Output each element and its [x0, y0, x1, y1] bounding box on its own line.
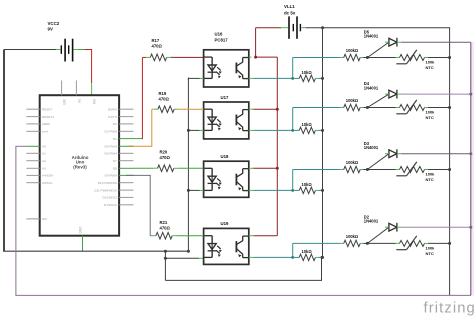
- wire VLL1 negative lead: [256, 27, 288, 29]
- diode D4 1N4001: [385, 90, 402, 99]
- resistor 100k ch-U19: [344, 240, 368, 246]
- wire U16 emitter: [249, 77, 293, 79]
- thermistor NTC 100k ch-U19: [367, 236, 449, 250]
- node emitter junction U18: [291, 189, 294, 192]
- resistor 100k ch-U16: [344, 54, 368, 60]
- pin A2: [26, 159, 46, 163]
- pin A4/SDA: [26, 174, 54, 178]
- node NTC to bus U17: [448, 106, 451, 109]
- pale margin strip: [472, 42, 474, 296]
- svg-text:A5/SCL: A5/SCL: [42, 181, 53, 185]
- wire ground bottom run: [165, 279, 322, 281]
- svg-text:U17: U17: [221, 95, 229, 100]
- svg-text:R19: R19: [159, 91, 167, 96]
- svg-text:RESET2: RESET2: [42, 115, 54, 119]
- wire U17 emitter: [249, 129, 293, 131]
- wire U18 collector stub: [249, 167, 277, 169]
- pin A5/SCL: [26, 181, 53, 185]
- pin A0: [26, 145, 46, 149]
- label D3 1N4001: [364, 141, 379, 150]
- svg-text:D1/TX: D1/TX: [108, 115, 117, 119]
- phototransistor of U16: [236, 58, 248, 79]
- resistor 10k ch-U17: [293, 127, 323, 133]
- label D5 1N4001: [364, 29, 379, 38]
- svg-text:10kΩ: 10kΩ: [302, 182, 313, 187]
- svg-text:470Ω: 470Ω: [160, 226, 171, 231]
- wire purple right bus: [470, 42, 472, 295]
- wire emitter jog up U18: [292, 170, 294, 191]
- phototransistor of U17: [236, 110, 248, 131]
- node 10k to bus U16: [321, 77, 324, 80]
- pin D2: [113, 122, 134, 126]
- node 10k bus bottom: [321, 256, 324, 259]
- svg-text:RESET: RESET: [42, 107, 52, 111]
- pin AREF: [26, 122, 50, 126]
- node U18 collector branch: [276, 167, 279, 170]
- svg-text:A3: A3: [42, 167, 46, 171]
- node ground jog: [164, 257, 167, 260]
- pin D6 PWM: [105, 152, 134, 156]
- pin D10 PWM/SS: [98, 181, 134, 185]
- node VLL1+ / 10k bus: [321, 26, 324, 29]
- label 100k NTC ch-U19: [426, 246, 436, 256]
- wire D5 to R19: [128, 109, 158, 146]
- wire D5 output: [402, 41, 471, 43]
- label 10k ch-U17: [302, 122, 313, 127]
- wire U19 emitter: [249, 256, 293, 258]
- resistor 10k ch-U16: [293, 75, 323, 81]
- wire purple bottom rail: [15, 294, 471, 296]
- resistor R20 470: [158, 165, 174, 172]
- svg-text:D7: D7: [113, 159, 117, 163]
- wire U19 collector stub: [249, 235, 277, 237]
- svg-text:D8: D8: [113, 167, 117, 171]
- svg-text:fritzing: fritzing: [424, 300, 474, 316]
- pin D13/SCK: [104, 203, 134, 207]
- wire opto cathode bus: [187, 78, 189, 252]
- svg-text:10kΩ: 10kΩ: [302, 122, 313, 127]
- optocoupler U19 body: [204, 228, 249, 264]
- wire U16 cathode stub: [188, 78, 203, 80]
- node 100k junction U18: [366, 168, 369, 171]
- node cathode bus U18: [187, 189, 190, 192]
- svg-text:100kΩ: 100kΩ: [346, 98, 359, 103]
- pin D0/RX: [108, 107, 134, 111]
- svg-text:3V3: 3V3: [62, 99, 66, 105]
- svg-text:GND: GND: [78, 226, 82, 234]
- pin D1/TX: [108, 115, 133, 119]
- svg-text:1N4001: 1N4001: [364, 145, 379, 150]
- svg-text:R21: R21: [160, 220, 168, 225]
- pin 3V3: [62, 81, 66, 105]
- wire VCC2 positive to VIN: [73, 49, 92, 95]
- svg-text:D3 PWM: D3 PWM: [105, 130, 118, 134]
- node emitter junction U17: [291, 129, 294, 132]
- svg-text:NTC: NTC: [426, 251, 434, 256]
- wire emitter jog up U19: [292, 243, 294, 257]
- node 10k to bus U17: [321, 129, 324, 132]
- resistor R21 470: [156, 232, 172, 239]
- node 100k junction U16: [366, 56, 369, 59]
- node 100k junction U19: [366, 242, 369, 245]
- svg-text:100kΩ: 100kΩ: [346, 234, 359, 239]
- node NTC to bus U18: [448, 168, 451, 171]
- label R17 470: [152, 38, 163, 49]
- pin D3 PWM: [105, 130, 134, 134]
- wire U16 collector stub: [249, 56, 252, 58]
- LED of U19: [204, 236, 222, 258]
- optocoupler U17 body: [204, 102, 249, 139]
- node D4 on purple bus: [469, 93, 472, 96]
- wire to 100k U19: [293, 242, 344, 244]
- svg-text:dc 5v: dc 5v: [284, 11, 296, 16]
- wire junction to diode D3: [367, 154, 389, 170]
- label R21 470: [160, 220, 171, 231]
- svg-text:A1: A1: [42, 152, 46, 156]
- wire VLL1 positive rail to right: [301, 27, 450, 29]
- thermistor NTC 100k ch-U16: [367, 50, 449, 64]
- pin D5 PWM: [105, 145, 134, 149]
- node U16 collector: [254, 56, 257, 59]
- svg-text:U19: U19: [221, 221, 229, 226]
- node U17 collector branch: [276, 108, 279, 111]
- node cathode bus ground: [187, 250, 190, 253]
- wire R19 to U17: [174, 108, 203, 110]
- node D3 on purple bus: [469, 152, 472, 155]
- svg-text:A0: A0: [42, 145, 46, 149]
- svg-text:470Ω: 470Ω: [160, 155, 171, 160]
- svg-text:D2: D2: [113, 122, 117, 126]
- wire to 100k U16: [293, 57, 344, 59]
- node 100k junction U17: [366, 106, 369, 109]
- label 100k NTC ch-U17: [426, 110, 436, 120]
- resistor 10k ch-U19: [293, 254, 323, 260]
- svg-text:NTC: NTC: [426, 115, 434, 120]
- wire D8 to R20: [134, 167, 158, 169]
- label 10k ch-U16: [302, 70, 313, 75]
- thermistor NTC 100k ch-U18: [367, 162, 449, 176]
- svg-text:D11 PWM/MOSI: D11 PWM/MOSI: [94, 188, 117, 192]
- wire VLL1- down: [255, 28, 257, 58]
- pin D11 PWM/MOSI: [94, 188, 133, 192]
- svg-text:A2: A2: [42, 159, 46, 163]
- svg-text:470Ω: 470Ω: [159, 97, 170, 102]
- svg-text:R20: R20: [160, 149, 168, 154]
- label VCC2 9V: [48, 21, 60, 31]
- label 100k ch-U17: [346, 98, 359, 103]
- pin D9 PWM: [105, 174, 134, 178]
- label 10k ch-U18: [302, 182, 313, 187]
- svg-text:D13/SCK: D13/SCK: [104, 203, 118, 207]
- wire ground rail: [3, 250, 188, 252]
- node 10k to bus U19: [321, 256, 324, 259]
- node emitter junction U16: [291, 77, 294, 80]
- label U17: [221, 95, 229, 100]
- pin A3: [26, 167, 46, 171]
- wire D9 to R21: [126, 175, 156, 235]
- node cathode bus U17: [187, 129, 190, 132]
- svg-text:A4/SDA: A4/SDA: [42, 174, 54, 178]
- pin RESET2: [26, 115, 54, 119]
- svg-text:9V: 9V: [48, 26, 53, 31]
- svg-text:U16: U16: [215, 31, 223, 36]
- wire U18 emitter: [249, 189, 293, 191]
- wire R17 to U16: [167, 56, 204, 58]
- phototransistor of U19: [236, 236, 248, 258]
- thermistor NTC 100k ch-U17: [367, 100, 449, 114]
- pin D7: [113, 159, 134, 163]
- svg-text:AREF: AREF: [42, 122, 50, 126]
- svg-text:10kΩ: 10kΩ: [302, 249, 313, 254]
- wire D4 output: [402, 93, 471, 95]
- svg-text:D0/RX: D0/RX: [108, 107, 117, 111]
- svg-text:D6 PWM: D6 PWM: [105, 152, 118, 156]
- label D2 1N4001: [364, 214, 379, 223]
- node emitter junction U19: [291, 256, 294, 259]
- resistor 100k ch-U17: [344, 104, 368, 110]
- resistor 10k ch-U18: [293, 187, 323, 193]
- wire ground jog down: [164, 251, 166, 280]
- wire to 100k U17: [293, 107, 344, 109]
- pin VIN: [92, 99, 96, 105]
- svg-text:VLL1: VLL1: [284, 4, 295, 9]
- svg-text:NTC: NTC: [426, 65, 434, 70]
- wire R21 to U19: [172, 235, 203, 237]
- svg-text:1N4001: 1N4001: [364, 86, 379, 91]
- label D4 1N4001: [364, 81, 379, 90]
- svg-text:ioref: ioref: [42, 130, 48, 134]
- pin N/C: [26, 217, 48, 221]
- label 100k NTC ch-U18: [426, 172, 436, 182]
- wire U18 cathode stub: [188, 189, 203, 191]
- diode D3 1N4001: [385, 149, 402, 158]
- battery VLL1: [288, 16, 301, 38]
- wire D3 output: [402, 153, 471, 155]
- wire NTC bus vertical: [449, 28, 451, 296]
- wire emitter jog up U16: [292, 58, 294, 79]
- LED of U18: [204, 168, 222, 190]
- fritzing watermark: [424, 300, 474, 316]
- svg-text:N/C: N/C: [42, 217, 48, 221]
- wire D2 output: [402, 226, 471, 228]
- diode D5 1N4001: [385, 38, 402, 47]
- svg-text:D9 PWM: D9 PWM: [105, 174, 118, 178]
- node 10k to bus U18: [321, 189, 324, 192]
- svg-text:VIN: VIN: [92, 99, 96, 105]
- pin GND wire to ground rail: [78, 226, 82, 251]
- wire D4 to R17: [134, 57, 151, 139]
- svg-text:470Ω: 470Ω: [152, 43, 163, 48]
- pin D4: [113, 137, 134, 141]
- optocoupler U18 body: [204, 161, 249, 197]
- phototransistor of U18: [236, 169, 248, 191]
- svg-text:U18: U18: [221, 154, 229, 159]
- wire ground rise to 10k bus: [321, 257, 323, 280]
- wire VCC2 negative lead to left border: [4, 49, 60, 51]
- svg-text:(Rev3): (Rev3): [73, 164, 87, 169]
- svg-text:100kΩ: 100kΩ: [346, 160, 359, 165]
- svg-text:D4: D4: [113, 137, 117, 141]
- wire emitter jog up U17: [292, 108, 294, 131]
- wire U17 cathode stub: [188, 129, 203, 131]
- node ground rail junction: [164, 250, 167, 253]
- pin ioref: [26, 130, 48, 134]
- resistor 100k ch-U18: [344, 166, 368, 172]
- svg-text:D10 PWM/SS: D10 PWM/SS: [98, 181, 117, 185]
- LED of U17: [204, 109, 222, 130]
- label Arduino Uno (Rev3): [72, 155, 89, 170]
- wire junction to diode D5: [367, 42, 389, 57]
- wire collector bus vertical: [276, 57, 278, 236]
- label 100k NTC ch-U16: [426, 60, 436, 70]
- wire U17 collector stub: [249, 108, 277, 110]
- diode D2 1N4001: [385, 223, 402, 232]
- pin 5V: [76, 81, 80, 104]
- wire to 100k U18: [293, 169, 344, 171]
- svg-text:PC817: PC817: [215, 38, 229, 43]
- optocoupler U16 body: [204, 50, 249, 87]
- node NTC to bus U19: [448, 242, 451, 245]
- node NTC to bus U16: [448, 56, 451, 59]
- wire left border vertical (VCC2- to GND rail): [3, 50, 5, 252]
- label U18: [221, 154, 229, 159]
- wire collector bus top: [256, 56, 278, 58]
- wire junction to diode D4: [367, 94, 389, 107]
- pin RESET: [26, 107, 52, 111]
- label 100k ch-U18: [346, 160, 359, 165]
- battery VCC2: [61, 39, 74, 62]
- LED of U16: [204, 57, 222, 78]
- label R20 470: [160, 149, 171, 160]
- svg-text:NTC: NTC: [426, 177, 434, 182]
- label 100k ch-U19: [346, 234, 359, 239]
- label VLL1 dc 5v: [284, 4, 296, 15]
- node D2 on purple bus: [469, 226, 472, 229]
- svg-text:R17: R17: [152, 38, 160, 43]
- label R19 470: [159, 91, 170, 102]
- wire ground to U19 cathode: [165, 257, 203, 259]
- svg-text:D12/MISO: D12/MISO: [102, 196, 117, 200]
- pin A1: [26, 152, 46, 156]
- pin D12/MISO: [102, 196, 133, 200]
- wire junction to diode D2: [367, 227, 389, 243]
- pin D8: [113, 167, 134, 171]
- wire A0 sense: [15, 146, 26, 295]
- svg-text:10kΩ: 10kΩ: [302, 70, 313, 75]
- label 100k ch-U16: [346, 48, 359, 53]
- svg-text:D5 PWM: D5 PWM: [105, 145, 118, 149]
- Arduino Uno U1 body: [40, 95, 119, 236]
- resistor R19 470: [158, 106, 174, 113]
- svg-text:100kΩ: 100kΩ: [346, 48, 359, 53]
- label U16 PC817: [215, 31, 229, 42]
- wire R20 to U18: [174, 167, 204, 169]
- label 10k ch-U19: [302, 249, 313, 254]
- wire 10k pull bus vertical: [322, 28, 324, 258]
- svg-text:1N4001: 1N4001: [364, 34, 379, 39]
- resistor R17 470: [150, 54, 166, 61]
- label U19: [221, 221, 229, 226]
- svg-text:1N4001: 1N4001: [364, 219, 379, 224]
